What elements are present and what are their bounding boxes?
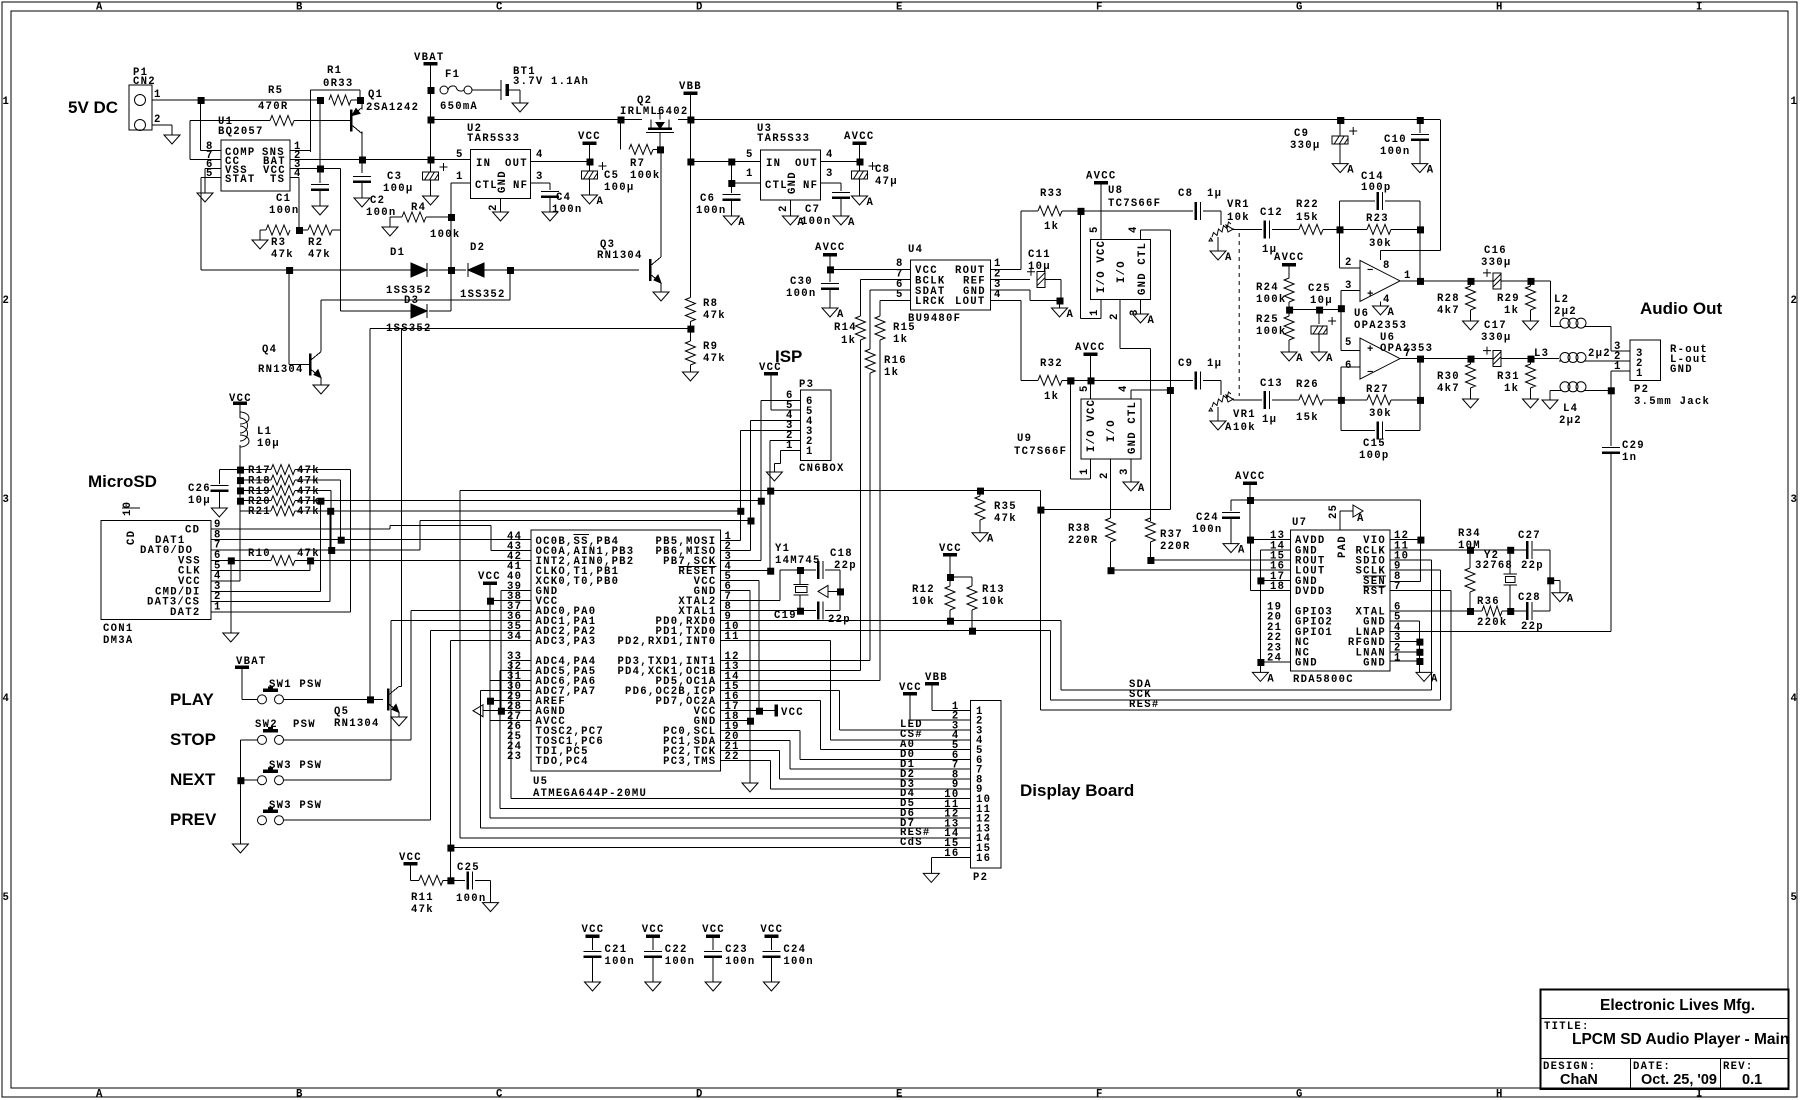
P2 display pin numbers [944, 701, 991, 865]
svg-text:4: 4 [294, 168, 302, 180]
wire U4 REF [991, 279, 1031, 281]
svg-text:A: A [96, 1089, 104, 1100]
svg-text:100n: 100n [783, 956, 813, 968]
svg-text:R27: R27 [1366, 384, 1389, 396]
vertical SDAT [869, 290, 871, 349]
svg-text:30k: 30k [1369, 408, 1392, 420]
wire U3 IN [690, 159, 760, 166]
svg-text:IN: IN [476, 158, 491, 170]
svg-text:4: 4 [826, 149, 834, 161]
svg-text:+: + [1367, 289, 1375, 301]
wire U4 ROUT [991, 211, 1022, 270]
wire jack pin2 [1611, 360, 1630, 362]
svg-text:R31: R31 [1497, 371, 1520, 383]
resistor R7 100k [621, 120, 665, 183]
U1 pin labels left [225, 147, 255, 186]
svg-text:CN2: CN2 [133, 76, 156, 88]
svg-text:D3: D3 [404, 295, 419, 307]
wire LED net [721, 691, 971, 731]
ground R9 [682, 372, 698, 381]
svg-text:IN: IN [766, 158, 781, 170]
transistor Q5 RN1304 [334, 686, 399, 730]
ground C7 A [833, 216, 856, 229]
svg-text:L4: L4 [1563, 403, 1578, 415]
wire VBAT-Q2 rail [431, 117, 643, 124]
svg-text:A: A [1567, 594, 1575, 606]
wire R17-DAT2 [295, 470, 351, 612]
wire C13 to R26 [1272, 399, 1299, 401]
svg-text:Q4: Q4 [262, 344, 277, 356]
resistor R35 47k [975, 491, 1017, 533]
wire R9 gnd [689, 365, 691, 372]
svg-text:7: 7 [1394, 581, 1402, 593]
svg-text:VCC: VCC [578, 131, 601, 143]
svg-text:Q1: Q1 [368, 89, 383, 101]
svg-text:VR1: VR1 [1233, 409, 1256, 421]
connector P1 CN2 [129, 67, 162, 131]
ground R31 [1523, 399, 1539, 408]
ground R3 [252, 240, 268, 249]
wire U4 LRCK [880, 299, 911, 301]
svg-text:C: C [496, 1089, 504, 1100]
wire MISO run [331, 518, 754, 551]
U5 right pin texts [617, 531, 739, 768]
wire U6a pin4 gnd [1373, 302, 1396, 320]
svg-text:C28: C28 [1518, 592, 1541, 604]
svg-text:C25: C25 [1308, 283, 1331, 295]
svg-text:2μ2: 2μ2 [1559, 415, 1582, 427]
svg-text:2: 2 [1791, 295, 1799, 307]
svg-text:1k: 1k [1044, 391, 1059, 403]
svg-text:1: 1 [154, 89, 162, 101]
svg-text:100k: 100k [1256, 326, 1286, 338]
wire C9 330u rail [1337, 117, 1344, 124]
wire U2 OUT VCC [531, 159, 594, 166]
svg-text:1k: 1k [1044, 221, 1059, 233]
power VBB [679, 81, 702, 120]
wire XTAL2 [721, 570, 817, 601]
svg-text:1: 1 [1079, 467, 1091, 475]
ground C3 [423, 196, 439, 205]
wire Q5 collector up [399, 329, 401, 687]
wire TXD0 run [721, 631, 1051, 700]
svg-text:R23: R23 [1366, 213, 1389, 225]
wire jack pin1 [1611, 371, 1630, 390]
wire L4 left gnd [1542, 390, 1559, 409]
capacitor C5 100u [582, 162, 635, 196]
svg-text:CD: CD [185, 525, 200, 537]
svg-text:IRLML6402: IRLML6402 [620, 106, 688, 118]
resistor R1 0R33 [323, 65, 364, 105]
wire AVCC top link [1231, 500, 1420, 511]
ground Q5 [391, 717, 407, 726]
svg-text:R32: R32 [1040, 358, 1063, 370]
wire R37 bottom [1147, 557, 1154, 564]
resistor R23 30k [1340, 213, 1425, 250]
wire U5 pin6 GND [721, 591, 755, 725]
svg-text:5: 5 [1345, 337, 1353, 349]
ground C9 A [1332, 164, 1355, 177]
svg-text:C10: C10 [1384, 134, 1407, 146]
svg-text:DVDD: DVDD [1295, 586, 1325, 598]
svg-text:25: 25 [1328, 504, 1340, 519]
svg-text:F1: F1 [445, 69, 460, 81]
svg-text:2: 2 [488, 203, 500, 211]
svg-text:L2: L2 [1554, 294, 1569, 306]
svg-text:14M745: 14M745 [775, 555, 821, 567]
svg-text:STAT: STAT [225, 174, 255, 186]
svg-text:C23: C23 [725, 944, 748, 956]
svg-text:A: A [1067, 309, 1075, 321]
wire SW4 right [284, 631, 532, 821]
wire U9 pin3 gnd [1130, 459, 1132, 482]
wire C16 wires [1471, 278, 1551, 285]
svg-text:A: A [1225, 422, 1233, 434]
svg-text:1k: 1k [841, 335, 856, 347]
wire U9 pin1 [1070, 380, 1090, 479]
wire CS# net [721, 641, 971, 741]
capacitor C30 100n [786, 269, 839, 308]
svg-text:100n: 100n [665, 956, 695, 968]
P2 jack labels [1670, 344, 1708, 376]
inductor L1 10u [240, 412, 280, 450]
wire SW2 left [240, 740, 257, 844]
opamp U6b [1360, 332, 1433, 379]
wire U6b out [1400, 356, 1475, 363]
connector P3 CN6BOX [799, 379, 845, 475]
resistor R5 470R [201, 85, 294, 126]
wire U6a in- [1340, 229, 1361, 268]
power AVCC U9 [1075, 342, 1105, 399]
svg-text:AVCC: AVCC [844, 131, 874, 143]
svg-text:R33: R33 [1040, 188, 1063, 200]
wire U7 RFGND [1390, 641, 1419, 643]
svg-text:3: 3 [826, 168, 834, 180]
svg-text:100n: 100n [269, 205, 299, 217]
svg-text:U4: U4 [908, 244, 923, 256]
svg-text:C11: C11 [1028, 249, 1051, 261]
svg-text:C7: C7 [805, 204, 820, 216]
wire U7 RCLK [1390, 547, 1524, 554]
svg-text:I: I [1696, 2, 1704, 14]
svg-text:GND: GND [1295, 658, 1318, 670]
svg-text:16: 16 [976, 853, 991, 865]
ground C1 [312, 206, 328, 215]
svg-text:10μ: 10μ [257, 438, 280, 450]
diode D2 1SS352 [460, 242, 506, 301]
agnd arrow U5 [473, 705, 483, 717]
svg-text:15k: 15k [1296, 412, 1319, 424]
capacitor C11 10u [1027, 249, 1051, 288]
svg-text:C29: C29 [1622, 440, 1645, 452]
svg-text:R30: R30 [1437, 371, 1460, 383]
wire D5 net [500, 671, 970, 810]
svg-text:0R33: 0R33 [323, 78, 353, 90]
svg-text:1: 1 [806, 446, 814, 458]
svg-text:100n: 100n [605, 956, 635, 968]
svg-text:ADC3,PA3: ADC3,PA3 [536, 636, 597, 648]
svg-text:R10: R10 [248, 548, 271, 560]
capacitor C25b 100n [450, 862, 490, 905]
resistor R30 4k7 [1437, 359, 1476, 399]
bus RES# [1040, 699, 1451, 711]
wire P1 pin2 to gnd [152, 125, 172, 135]
svg-text:A: A [1225, 252, 1233, 264]
resistor R29 1k [1497, 281, 1536, 321]
svg-text:NEXT: NEXT [170, 770, 216, 789]
svg-text:RN1304: RN1304 [334, 718, 380, 730]
svg-text:16: 16 [944, 848, 959, 860]
wire BAT rail [290, 157, 471, 164]
svg-text:1: 1 [746, 168, 754, 180]
resistor R8 47k [685, 298, 725, 323]
wire CC left [190, 121, 221, 160]
gang dashed line [1238, 233, 1240, 396]
svg-text:AVCC: AVCC [1086, 171, 1116, 183]
svg-text:C27: C27 [1518, 530, 1541, 542]
U9 pin numbers [1079, 384, 1131, 479]
svg-text:47k: 47k [411, 904, 434, 916]
svg-text:5V DC: 5V DC [68, 98, 118, 117]
wire VCC-AREF [487, 601, 494, 705]
ground U2 GND [493, 212, 509, 221]
svg-text:R1: R1 [327, 65, 342, 77]
U2 GND stem [500, 199, 502, 213]
wire to L3 [1531, 358, 1560, 360]
wire Q4 collector [509, 270, 511, 300]
ground C24b A [1223, 544, 1246, 557]
wire U3 NF [820, 183, 850, 216]
ground C30 A [822, 308, 845, 321]
svg-text:220R: 220R [1068, 535, 1098, 547]
svg-text:NF: NF [513, 180, 528, 192]
U3 GND stem [789, 200, 791, 216]
wire U5 pin5 VCC [721, 581, 764, 715]
wire RES# display [460, 491, 971, 839]
svg-text:C2: C2 [370, 195, 385, 207]
svg-text:5: 5 [206, 168, 214, 180]
svg-text:I/O: I/O [1106, 419, 1118, 442]
wire VSS [211, 557, 235, 633]
svg-text:U7: U7 [1292, 517, 1307, 529]
svg-text:8: 8 [1383, 260, 1391, 272]
capacitor C29 1n [1602, 390, 1645, 631]
wire F1 to BT1 [472, 89, 501, 91]
capacitor C14 100p [1340, 171, 1421, 229]
ground U1 VSS [197, 193, 213, 202]
power VCC display [899, 682, 971, 720]
svg-text:PD2,RXD1,INT0: PD2,RXD1,INT0 [617, 636, 716, 648]
svg-text:VCC: VCC [399, 852, 422, 864]
svg-text:H: H [1496, 1089, 1504, 1100]
svg-text:1: 1 [1089, 308, 1101, 316]
resistor R14 1k [834, 316, 865, 347]
svg-text:1μ: 1μ [1207, 188, 1222, 200]
svg-text:AVCC: AVCC [815, 242, 845, 254]
switch SW1 PSW [258, 679, 323, 704]
wire Q4 collector up [321, 300, 510, 352]
wire U5 AREF [490, 700, 531, 702]
svg-text:2: 2 [778, 204, 790, 212]
svg-text:C1: C1 [276, 193, 291, 205]
wire SW1 right [284, 696, 384, 703]
svg-text:A: A [1267, 673, 1275, 685]
wire D2 net [721, 751, 971, 781]
svg-text:A: A [1326, 353, 1334, 365]
wire U5 AGND [483, 708, 531, 715]
svg-text:1: 1 [1791, 96, 1799, 108]
svg-text:10k: 10k [1227, 212, 1250, 224]
svg-text:2: 2 [1099, 471, 1111, 479]
svg-text:F: F [1096, 1089, 1104, 1100]
capacitor C10 100n [1380, 120, 1429, 164]
svg-text:100μ: 100μ [383, 183, 413, 195]
wire L1 down [237, 445, 244, 511]
potentiometer VR1 bottom [1209, 392, 1256, 434]
resistor R26 15k [1296, 379, 1323, 424]
svg-text:1k: 1k [884, 367, 899, 379]
wire Q1 collector [361, 132, 363, 160]
svg-text:DAT2: DAT2 [170, 607, 200, 619]
wire U7 GND1 [1390, 661, 1419, 672]
capacitor C18 22p [818, 548, 857, 591]
U6a pin texts [1345, 257, 1412, 306]
IC U8 TC7S66F [1091, 185, 1162, 300]
crystal Y1 14M745 [775, 543, 821, 611]
wire SCK run [721, 560, 761, 562]
svg-text:TDO,PC4: TDO,PC4 [536, 756, 589, 768]
vertical BCLK [859, 280, 861, 316]
svg-text:SW1 PSW: SW1 PSW [269, 679, 322, 691]
capacitor C2 100n [353, 160, 396, 220]
wire Q2 drain rail [678, 117, 1441, 125]
label STOP [170, 730, 216, 749]
wire DAT3 [211, 601, 330, 603]
svg-text:C18: C18 [830, 548, 853, 560]
svg-text:PLAY: PLAY [170, 690, 214, 709]
svg-text:100k: 100k [1256, 294, 1286, 306]
svg-text:R16: R16 [884, 355, 907, 367]
IC U1 BQ2057 [218, 116, 290, 191]
power VCC C21 [582, 924, 605, 950]
power AVCC U4 [815, 242, 845, 273]
P3 inside numbers [806, 396, 814, 458]
wire U5 pin17 VCC tag [721, 705, 804, 720]
power VCC U2 [578, 131, 601, 162]
ground R35 A [972, 533, 995, 546]
wire DAT0 [211, 547, 335, 554]
inductor L2 2u2 [1554, 294, 1587, 328]
resistor R28 4k7 [1437, 281, 1476, 321]
U9 texts [1086, 399, 1139, 454]
ground C24 [763, 982, 779, 991]
title block [1541, 990, 1790, 1090]
svg-text:10M: 10M [1458, 540, 1481, 552]
capacitor C27 22p [1518, 530, 1554, 584]
power VCC ISP [759, 362, 782, 410]
wire U5 pin18 GND [721, 721, 751, 783]
wire P3 pin1 gnd [774, 451, 800, 464]
wire U7 AVDD [1250, 539, 1291, 541]
wire VBB-R8 [689, 162, 691, 298]
svg-text:4: 4 [3, 693, 11, 705]
IC U3 TAR5S33 [757, 123, 820, 200]
ground C23 [705, 982, 721, 991]
power VCC C22 [642, 924, 665, 950]
svg-text:100n: 100n [456, 893, 486, 905]
svg-text:CdS: CdS [900, 837, 923, 849]
svg-text:1: 1 [1394, 653, 1402, 665]
P2 pin16 gnd [931, 857, 970, 873]
resistor R13 10k [967, 584, 1005, 635]
label PREV [170, 810, 217, 829]
svg-text:47k: 47k [308, 249, 331, 261]
U1 pin labels right [262, 147, 286, 186]
ground U3 A [782, 216, 805, 229]
svg-text:RN1304: RN1304 [258, 364, 304, 376]
wire R2 right up [320, 169, 341, 231]
svg-text:470R: 470R [258, 101, 288, 113]
wire A0 net [721, 701, 971, 751]
wire RES# vertical [1039, 510, 1041, 710]
wire U6b in- [1341, 367, 1360, 400]
svg-text:3: 3 [1119, 467, 1131, 475]
svg-text:VCC: VCC [702, 924, 725, 936]
power VCC R12 [939, 543, 962, 581]
svg-text:R2: R2 [308, 237, 323, 249]
capacitor C15 100p [1341, 400, 1420, 462]
wire R26 to R27 [1323, 397, 1345, 404]
U5 SS overline [574, 534, 717, 566]
svg-text:4: 4 [1128, 225, 1140, 233]
svg-text:BU9480F: BU9480F [908, 313, 961, 325]
U7 pin texts [1267, 530, 1409, 669]
svg-text:A: A [848, 217, 856, 229]
svg-text:0.1: 0.1 [1742, 1072, 1762, 1088]
svg-text:A: A [867, 197, 875, 209]
svg-text:P3: P3 [799, 379, 814, 391]
ground C22 [645, 982, 661, 991]
svg-text:100k: 100k [630, 170, 660, 182]
wire 5V rail [152, 97, 324, 104]
inductor L4 2u2 [1559, 382, 1587, 427]
svg-text:C16: C16 [1484, 245, 1507, 257]
ground U4 A [1052, 308, 1075, 321]
svg-text:VR1: VR1 [1227, 199, 1250, 211]
ground C25b [483, 903, 499, 912]
wire D2-Q3 base [560, 269, 639, 271]
svg-text:C21: C21 [605, 944, 628, 956]
U8 texts [1096, 240, 1149, 295]
wire U7 SEN [1390, 581, 1420, 583]
power AVCC R24 [1274, 252, 1304, 278]
capacitor C24b 100n [1192, 512, 1240, 544]
wire U4 GND [991, 290, 1064, 308]
wire SW3 right [284, 621, 532, 781]
wire CdS net [447, 641, 970, 881]
resistor R34 10M [1458, 528, 1481, 615]
svg-text:ChaN: ChaN [1560, 1072, 1598, 1088]
resistor R3 47k [260, 225, 303, 261]
capacitor C6 100n [696, 183, 740, 217]
svg-text:P2: P2 [973, 872, 988, 884]
resistor R16 1k [865, 349, 907, 379]
svg-text:C6: C6 [700, 193, 715, 205]
ground C26 [211, 508, 227, 517]
wire U7 GND24 [1260, 662, 1290, 672]
power AVCC U7 [1235, 471, 1265, 544]
svg-text:AVCC: AVCC [1274, 252, 1304, 264]
